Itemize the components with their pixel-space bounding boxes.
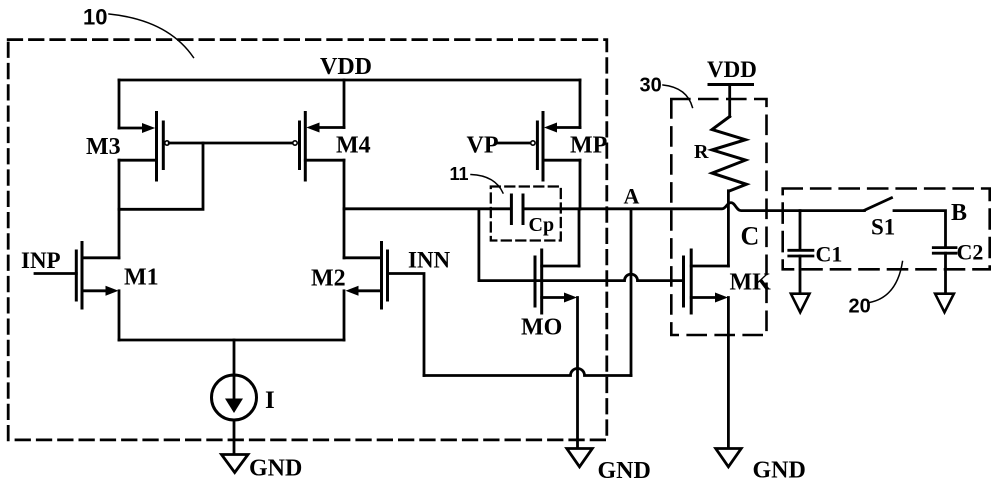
svg-text:11: 11	[450, 164, 469, 184]
wire I to ground	[233, 420, 236, 455]
svg-text:M3: M3	[86, 134, 121, 160]
svg-text:20: 20	[849, 296, 871, 318]
svg-text:M2: M2	[311, 266, 346, 292]
switch S1	[864, 198, 895, 240]
svg-text:30: 30	[640, 74, 662, 96]
VDD label (block 30)	[707, 57, 757, 82]
transistor MP	[531, 113, 608, 181]
wire M3 diode connection	[119, 143, 203, 209]
svg-text:Cp: Cp	[529, 214, 555, 236]
node line: M4 drain to Cp left plate	[344, 207, 510, 210]
VDD rail (block 10)	[119, 79, 580, 82]
svg-text:INP: INP	[21, 248, 61, 273]
label 10	[83, 5, 107, 30]
svg-text:VP: VP	[467, 133, 499, 159]
wire S1 to node B	[894, 211, 946, 248]
VDD rail (block 30)	[709, 83, 753, 86]
svg-text:A: A	[624, 183, 640, 208]
INN label	[408, 248, 451, 273]
ground (MO)	[567, 449, 593, 467]
svg-text:R: R	[694, 141, 709, 163]
label 30	[640, 74, 662, 96]
wire MO source to ground	[576, 298, 579, 449]
svg-text:MK: MK	[730, 270, 772, 296]
wire M2 gate to feedback corner	[388, 274, 425, 376]
svg-text:10: 10	[83, 5, 107, 30]
label 20	[849, 296, 871, 318]
wire M4 drain down to M2 drain	[343, 160, 346, 258]
wire VDD to M4 source	[343, 80, 346, 128]
capacitor C2	[933, 240, 983, 265]
ground (C1)	[791, 294, 810, 313]
svg-text:GND: GND	[753, 458, 806, 484]
INP label	[21, 248, 61, 273]
block 10 dashed border	[8, 40, 607, 440]
transistor M1	[76, 243, 158, 309]
GND label (MO)	[598, 458, 651, 484]
svg-text:GND: GND	[598, 458, 651, 484]
GND label (MK)	[753, 458, 806, 484]
wire common source rail	[119, 339, 344, 342]
node line: Cp right plate to R hop, then to S1	[524, 203, 865, 211]
node A label	[624, 183, 640, 208]
svg-text:B: B	[951, 200, 967, 226]
VP label	[467, 133, 499, 159]
current source I	[212, 340, 275, 420]
svg-text:M4: M4	[336, 133, 371, 159]
block 30 dashed border	[671, 99, 766, 335]
wire feedback horizontal with hop over MO-GND wire	[424, 369, 631, 376]
wire M2 source down	[343, 291, 346, 340]
block 11 dashed border	[491, 187, 561, 241]
wire MO drain to node A	[578, 209, 581, 266]
ground (C2)	[935, 294, 954, 313]
wire VDD to M3 source	[118, 80, 121, 128]
leader line for 30	[663, 85, 693, 108]
svg-text:MP: MP	[570, 133, 607, 159]
wire C1 to ground	[799, 256, 802, 294]
wire VDD to MP source	[579, 80, 582, 128]
svg-text:MO: MO	[521, 315, 562, 341]
wire M3 drain down to M1 drain	[118, 160, 121, 258]
block 20 dashed border	[783, 189, 990, 270]
wire node line down to C1	[799, 211, 802, 250]
wire VP to MP gate	[498, 142, 531, 145]
svg-text:C2: C2	[957, 240, 984, 265]
capacitor Cp	[511, 195, 554, 236]
svg-text:VDD: VDD	[707, 57, 757, 82]
wire node line down to MO gate	[477, 209, 480, 281]
transistor M4	[293, 113, 371, 181]
node C label	[741, 222, 760, 251]
svg-text:C1: C1	[816, 242, 843, 267]
leader line for 20	[870, 262, 903, 303]
GND label (tail)	[249, 456, 302, 482]
wire M1 source down	[118, 291, 121, 340]
R label	[694, 141, 709, 163]
wire MK source to ground	[727, 298, 730, 449]
ground (tail)	[222, 455, 249, 473]
svg-text:GND: GND	[249, 456, 302, 482]
ground (MK)	[716, 449, 742, 467]
node B label	[951, 200, 967, 226]
transistor MK	[684, 250, 772, 313]
svg-text:C: C	[741, 222, 760, 251]
svg-text:VDD: VDD	[320, 54, 372, 80]
resistor R	[712, 117, 746, 191]
wire MP drain to node A	[579, 160, 582, 209]
svg-text:INN: INN	[408, 248, 451, 273]
transistor M3	[86, 113, 169, 181]
capacitor C1	[789, 242, 843, 267]
svg-text:I: I	[265, 387, 275, 414]
transistor MO	[521, 250, 579, 341]
wire node C: resistor bottom to MK drain	[727, 191, 730, 266]
leader line for 11	[471, 175, 503, 194]
VDD label	[320, 54, 372, 80]
wire C2 to ground	[944, 253, 947, 294]
wire INP to M1 gate	[35, 272, 76, 275]
wire M3 gate to M4 gate	[169, 142, 293, 145]
wire node A down to feedback	[630, 209, 633, 376]
svg-text:S1: S1	[871, 215, 895, 240]
wire MO/MK gate line with hop over node-A feedback wire	[479, 274, 684, 281]
leader line for 10	[109, 14, 194, 58]
label 11	[450, 164, 469, 184]
wire VDD to resistor	[728, 85, 731, 117]
svg-text:M1: M1	[124, 265, 159, 291]
transistor M2	[311, 243, 388, 309]
